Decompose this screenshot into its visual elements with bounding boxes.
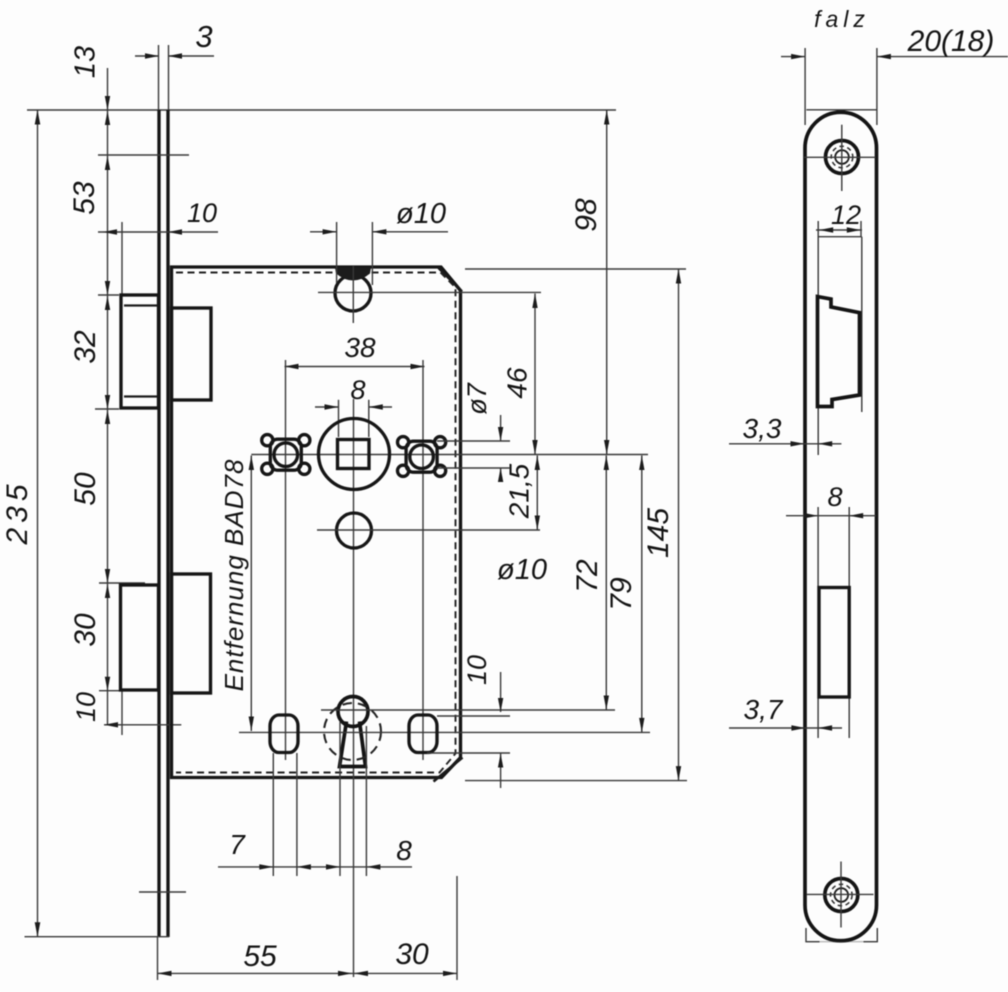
svg-text:10: 10 [462,655,492,685]
dimension o10 top extension lines [336,222,338,283]
right view plate right edge [875,148,879,905]
dimension 79 line [641,456,643,733]
follower circle [319,419,390,490]
bottom extension line y=936.7 [25,936,170,938]
dimension 21,5 line [536,456,538,531]
dimension 3,7 [729,727,842,729]
dimension 12 extension lines [817,221,819,237]
dimension 10 right line [500,672,502,712]
svg-text:53: 53 [68,181,101,215]
svg-text:7: 7 [229,829,246,860]
dimension o7 line [500,415,502,441]
top hole centerline h [318,291,541,293]
dimension 3,3 [729,443,841,445]
svg-text:46: 46 [501,367,532,399]
svg-text:Entfernung BAD78: Entfernung BAD78 [219,459,249,692]
case top extension line for 145 [465,268,686,270]
svg-text:8: 8 [396,835,412,866]
cylinder window right view [819,588,849,698]
dimension 235 line [37,110,39,937]
dimension 55 and 30 line [158,972,458,974]
right view plate top arc [805,112,877,148]
chain tick y=690.7 [99,690,120,692]
top hole centerline v [352,266,354,323]
small hole right [409,715,437,753]
chain tick y=295 [98,294,119,296]
svg-text:55: 55 [243,940,277,973]
follower square [338,440,370,469]
svg-text:3,3: 3,3 [743,413,782,444]
faceplate strip right edge [166,110,169,937]
latch bolt inner body [172,308,212,400]
deadbolt inner body [172,574,211,693]
svg-text:32: 32 [69,330,102,364]
svg-text:10: 10 [71,692,101,722]
dimension 3 (faceplate thickness) [135,55,159,57]
dimension 7/8 extension lines [272,753,274,876]
svg-text:30: 30 [69,613,102,647]
lock case inner dashed cover plate [176,273,456,773]
svg-text:20(18): 20(18) [907,25,995,58]
svg-text:10: 10 [187,198,217,228]
svg-text:3: 3 [195,19,212,54]
keyhole center extension line [321,709,615,711]
latch bolt head outer [121,295,159,408]
svg-text:79: 79 [605,577,638,611]
svg-text:38: 38 [344,332,376,363]
dimension 10 right extension lines [437,715,510,717]
svg-text:30: 30 [395,938,429,971]
dimension 46 line [534,294,536,455]
keyhole circle [338,697,368,727]
lower hole centerline [317,529,540,531]
rosette left [262,435,310,475]
dimension o7 extension lines [437,440,510,442]
dimension 8 square [315,406,339,408]
svg-text:145: 145 [642,508,675,558]
top screw hole circle [335,275,371,311]
chain bottom line y=724.8 with left arrow [104,724,181,726]
holes centerline h [239,731,650,733]
latch bolt head inner lines [124,304,158,306]
faceplate top edge extension line [27,109,616,111]
svg-text:ø10: ø10 [497,554,547,586]
deadbolt head [121,585,159,690]
dimension 12 [816,229,862,231]
keyhole shank [340,722,366,767]
dimension 8 right view [786,515,876,517]
small hole left [270,715,298,753]
svg-text:8: 8 [350,375,365,405]
svg-text:12: 12 [831,200,861,230]
case bottom extension line for 145 [465,780,687,782]
chain tick y=409 [95,408,119,410]
bottom screw centerlines [840,862,842,928]
dimension 7 and 8 line [218,866,412,868]
dimension 98 line [606,110,608,455]
latch front face extension line [121,222,123,295]
dimension 8 square extension lines [338,400,340,437]
follower centerline h [251,454,648,456]
svg-text:3,7: 3,7 [744,694,784,725]
lock case outline [172,267,461,778]
bottom tangent line [807,941,877,943]
faceplate strip extension lines above [158,45,160,110]
right view bottom corner bracket right [864,928,878,942]
case corner overshoot strokes [439,268,463,292]
right view plate left edge [803,148,807,905]
dimension 72 line [605,456,607,711]
falz extension lines [804,48,806,125]
chain arrows at y=110 [105,96,110,110]
latch window right view [817,237,819,455]
lower hole circle [337,513,372,548]
svg-text:13: 13 [70,46,102,78]
top screw hole [826,141,859,174]
faceplate strip left edge [157,110,160,937]
right view top tangent line [806,109,877,111]
dimension 145 line [678,269,680,781]
rosette extension line left [285,360,287,760]
chain tick y=155 [98,154,189,156]
dimension 8 right view extension lines [817,507,819,738]
right view bottom corner bracket left [806,928,820,942]
svg-text:235: 235 [1,479,34,545]
latch bolt side view [818,297,860,407]
svg-text:50: 50 [69,472,102,506]
svg-text:ø10: ø10 [396,198,446,230]
strip tick y=892 [139,891,186,893]
rosette extension line right [422,360,424,760]
dimension falz / 20(18) [781,56,805,58]
svg-text:21,5: 21,5 [503,463,534,519]
top screw hole notch fill [335,268,371,281]
top screw centerlines [841,125,843,191]
svg-text:ø7: ø7 [462,382,492,414]
svg-text:falz: falz [814,6,870,32]
bottom screw hole [825,879,858,912]
svg-text:98: 98 [570,198,603,232]
dimension 10 (faceplate stand-off) at y=232 [98,231,218,233]
dimension 38 [285,366,425,368]
chain dimension line x=107.5 [107,68,109,725]
dimension o10 top [310,231,337,233]
dimension 55/30 extension lines [157,937,159,980]
chain tick y=583 [99,582,145,584]
Entfernung BAD78 dimension line [250,456,252,732]
rosette right [398,437,446,477]
svg-text:8: 8 [827,482,842,512]
right view plate bottom arc [805,905,877,941]
main centerline v [353,399,355,977]
svg-text:72: 72 [571,559,604,593]
keyhole dashed rosette circle [324,703,381,760]
